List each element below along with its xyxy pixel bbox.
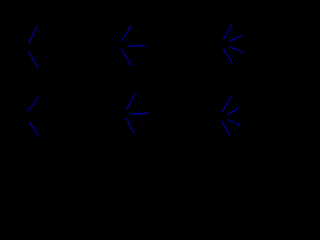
wire D2 [29,122,38,137]
wire F2 [227,108,239,114]
wire E2 (horizontal edge of node E) [131,113,149,114]
wire F3 [222,121,230,135]
wire A2 [28,52,37,67]
wire B3 [122,50,131,66]
wire C4 [223,48,233,64]
wire B1 [122,26,131,41]
graph canvas [0,0,278,164]
wire F4 [228,120,241,126]
wire A1 [29,27,37,43]
wire E1 [127,94,135,109]
wire C2 [229,35,241,41]
wire B2 (horizontal edge of node B) [127,45,145,48]
wire C3 [229,47,243,53]
wire D1 [27,97,38,112]
wire F1 [222,97,231,112]
wire C1 [223,25,231,40]
wire E3 [126,118,133,133]
